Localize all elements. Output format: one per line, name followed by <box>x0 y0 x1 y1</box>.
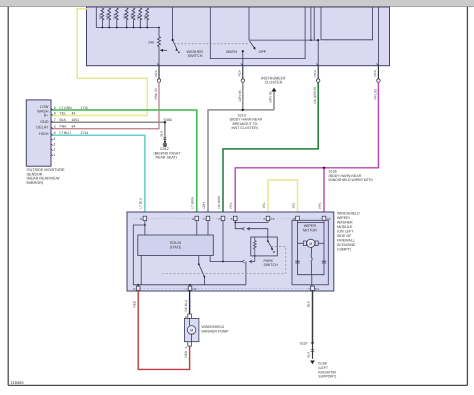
wire BLK 1051: sensor B+ to S366 <box>52 122 165 142</box>
svg-text:IN ENGINE: IN ENGINE <box>337 243 356 247</box>
wire color labels below connectors <box>154 86 377 103</box>
wiper motor circle <box>307 239 315 247</box>
svg-text:GRY 85: GRY 85 <box>238 90 242 101</box>
wire DK BLU: module to pump <box>189 291 191 315</box>
svg-text:=: = <box>186 287 188 291</box>
pin D box (LT BLU) <box>143 216 147 220</box>
svg-text:+: + <box>308 287 310 291</box>
ground G108 <box>310 361 315 365</box>
wire LT GRN 1715: sensor LOW to module pin G <box>52 110 197 216</box>
park switch resistor <box>253 237 256 256</box>
svg-text:FIREWALL: FIREWALL <box>337 238 355 242</box>
pin A box (YEL) <box>266 216 270 220</box>
wiper/washer module block <box>127 212 334 291</box>
wire RED: module to washer pump <box>138 291 189 370</box>
pin C8 box (PPL) <box>322 216 326 220</box>
wire PNK 93/94: washer switch to sensor GND <box>52 82 160 128</box>
contact double vertical a <box>310 8 312 41</box>
ppl stub <box>377 66 379 79</box>
svg-text:WINDSHIELD WIPER MTR): WINDSHIELD WIPER MTR) <box>329 178 373 182</box>
rail to red pin <box>137 285 139 286</box>
inline connector circle ppl <box>377 79 380 82</box>
wire yel pin B into motor loop left leg <box>297 221 299 223</box>
svg-text:DELAY: DELAY <box>36 125 49 129</box>
svg-text:S107: S107 <box>300 342 308 346</box>
svg-text:WASHER PUMP: WASHER PUMP <box>202 329 230 333</box>
connector stubs below washer switch <box>159 66 378 79</box>
inline connector circle pnk <box>157 79 160 82</box>
dk grn tap dot <box>317 39 319 41</box>
wire pin C to solid state <box>207 221 209 235</box>
svg-text:A: A <box>184 346 188 348</box>
wire pin B to pin A jumper <box>235 221 268 223</box>
wire GRY 85: washer switch to S210 <box>242 82 244 110</box>
svg-text:GND: GND <box>40 120 49 124</box>
svg-text:M: M <box>309 242 312 246</box>
svg-text:SWITCH: SWITCH <box>188 54 203 58</box>
module pin letters <box>140 217 331 221</box>
svg-text:BLK: BLK <box>60 118 67 122</box>
dk grn tap vertical <box>317 40 319 66</box>
module internal wires <box>133 221 272 287</box>
svg-text:8: 8 <box>54 111 56 115</box>
washer switch pivot dot <box>172 39 174 41</box>
connector C1 dashed line <box>133 217 330 219</box>
washer switch common vertical <box>172 8 174 41</box>
instrument cluster triangle <box>272 88 277 92</box>
svg-text:5: 5 <box>54 125 56 129</box>
washer relay contact dot <box>198 263 200 265</box>
wire pin D branch to washer feed rail <box>133 225 145 285</box>
sensor wire row labels <box>54 106 89 157</box>
NCA labels <box>154 70 377 76</box>
svg-text:BLK: BLK <box>307 300 311 307</box>
svg-text:COMPT): COMPT) <box>337 247 351 251</box>
svg-text:YEL: YEL <box>262 202 266 208</box>
svg-text:A: A <box>263 217 265 221</box>
svg-text:C2: C2 <box>193 287 197 291</box>
svg-text:30K: 30K <box>144 15 147 20</box>
washer relay output <box>203 277 205 285</box>
svg-text:LT GRN: LT GRN <box>60 106 73 110</box>
park switch box <box>251 237 277 256</box>
svg-text:HIGH: HIGH <box>39 132 49 136</box>
junction pin H to park switch line <box>222 261 224 263</box>
inline connector circle gry <box>241 79 244 82</box>
module top pin boxes <box>143 216 326 220</box>
switch gang dashed line <box>174 43 249 45</box>
svg-text:1: 1 <box>54 153 56 157</box>
pin B box (PPL) <box>233 216 237 220</box>
svg-text:NCA: NCA <box>373 70 377 76</box>
wire ppl pin C8 into motor loop right leg <box>323 221 325 223</box>
wire BLK below S107 <box>312 343 314 359</box>
park switch resistor bottom junction <box>254 255 256 257</box>
resistor R3 <box>115 8 118 28</box>
svg-text:NCA: NCA <box>154 70 158 76</box>
park switch blade arrowhead <box>271 247 274 250</box>
wire pin H to park switch line <box>222 221 224 262</box>
rail to pump pin <box>189 285 191 286</box>
wire solid state to park switch interface <box>210 256 243 262</box>
nested contact rect R2 <box>321 8 373 40</box>
svg-text:100K: 100K <box>130 13 133 19</box>
inline connector ticks below S366 <box>163 138 166 140</box>
svg-text:118465: 118465 <box>11 380 25 385</box>
potentiometer wiper arrow <box>163 49 168 51</box>
svg-text:GRY 85: GRY 85 <box>268 91 272 102</box>
motor winding squiggle <box>311 248 312 275</box>
resistor 24K <box>158 28 161 52</box>
svg-text:LT BLU: LT BLU <box>60 131 72 135</box>
svg-text:56K: 56K <box>137 15 140 20</box>
gry stub <box>242 66 244 79</box>
module bottom pin boxes <box>136 286 314 290</box>
junction washer rail to red pin <box>137 284 139 286</box>
svg-text:BLK: BLK <box>159 131 163 137</box>
svg-text:PPL: PPL <box>229 202 233 208</box>
svg-text:DK GRN: DK GRN <box>217 195 221 208</box>
svg-text:7: 7 <box>54 118 56 122</box>
solid state to rail <box>140 256 142 285</box>
svg-text:STATE: STATE <box>170 246 182 250</box>
wire 24K to block bottom <box>158 52 160 66</box>
svg-text:180K: 180K <box>124 13 127 19</box>
gry drop from wash contact <box>242 51 244 65</box>
wire left leg to left brush <box>298 242 304 244</box>
svg-text:2: 2 <box>54 148 56 152</box>
svg-text:GRY: GRY <box>202 201 206 209</box>
svg-text:24K: 24K <box>148 40 155 44</box>
svg-text:WIPER/: WIPER/ <box>337 216 350 220</box>
junction pin B tee <box>234 222 236 224</box>
svg-text:E3: E3 <box>315 287 319 291</box>
pnk stub <box>158 66 160 79</box>
ground G312 <box>163 143 167 147</box>
svg-text:6: 6 <box>54 131 56 135</box>
svg-text:MIRROR): MIRROR) <box>27 181 44 185</box>
wire PPL 83: washer switch to S105 and module pins <box>235 82 378 216</box>
washer switch block <box>87 7 390 66</box>
svg-text:LT GRN: LT GRN <box>191 196 195 208</box>
resistor R4 <box>125 8 128 28</box>
washer relay output dot <box>204 276 206 278</box>
sensor pin ticks <box>51 108 53 156</box>
svg-text:1715: 1715 <box>81 106 89 110</box>
wire pin G to solid state <box>196 221 198 235</box>
resistor R7 <box>146 8 149 28</box>
svg-text:3: 3 <box>54 142 56 146</box>
washer feed rail <box>138 284 246 286</box>
washer switch blade <box>173 40 177 49</box>
wire LT BLU 1714: sensor DELAY to module pin D <box>52 135 145 216</box>
pin D box (RED) <box>136 286 140 290</box>
off switch blade <box>250 41 255 49</box>
nested contact rect R0 <box>210 8 305 59</box>
svg-text:M: M <box>190 329 193 333</box>
svg-text:OFF: OFF <box>259 50 267 54</box>
resistor R6 <box>139 8 142 28</box>
wire YEL jumper module A to B <box>268 180 298 216</box>
resistor R1 <box>101 8 104 28</box>
resistor R5 <box>132 8 135 28</box>
wire YEL 43: sensor WASH to washer switch <box>52 9 148 116</box>
svg-text:YEL: YEL <box>60 111 67 115</box>
wiper arrowhead <box>160 49 163 52</box>
wire pin B to park switch feed <box>235 221 242 229</box>
exit ticks at washer switch bottom <box>157 64 378 66</box>
wire pin D to solid state <box>144 221 146 235</box>
svg-text:4: 4 <box>54 137 56 141</box>
page frame left border <box>7 7 9 386</box>
park switch blade contact dot <box>273 251 275 253</box>
pin H box (DK GRN) <box>221 216 225 220</box>
svg-text:RED: RED <box>132 300 136 307</box>
pin E3 box (BLK) <box>311 286 315 290</box>
dk grn stub <box>317 66 319 79</box>
inline connector circle dk grn <box>317 79 320 82</box>
motor brushes <box>303 241 306 246</box>
junction pin D tee <box>144 224 146 226</box>
washer pump <box>184 318 199 341</box>
washer relay blade <box>199 264 205 276</box>
junction motor loop to ground lead <box>311 274 313 276</box>
resistor ladder bus <box>96 27 159 29</box>
svg-text:WINDSHIELD: WINDSHIELD <box>337 211 360 215</box>
module label <box>337 211 360 251</box>
svg-text:330K: 330K <box>114 13 117 19</box>
svg-text:SWITCH: SWITCH <box>264 263 279 267</box>
resistor ladder bus junction dots <box>102 27 104 29</box>
bus left vertical <box>95 8 97 28</box>
resistor R2 <box>108 8 111 28</box>
connector arrows into park switch <box>242 227 252 263</box>
wire GRY 85 branch to instrument cluster <box>273 91 275 110</box>
svg-text:DK GRN 87: DK GRN 87 <box>313 86 317 103</box>
pin C2 box (DK BLU) <box>188 286 192 290</box>
svg-text:1714: 1714 <box>81 131 89 135</box>
svg-text:WIPER: WIPER <box>304 224 317 228</box>
wash contact dot <box>242 50 244 52</box>
svg-text:B+: B+ <box>44 114 50 118</box>
svg-text:SOLID: SOLID <box>170 241 182 245</box>
splice S105 <box>323 167 325 169</box>
off blade arrowhead <box>253 46 255 49</box>
connector C2 dashed line <box>133 287 316 289</box>
wire right leg to right brush <box>318 242 324 244</box>
svg-text:MOTOR: MOTOR <box>303 229 317 233</box>
splice S210 <box>242 109 244 111</box>
capacitor C-left plates <box>295 261 299 263</box>
capacitor C-right plates <box>322 261 326 263</box>
svg-text:H: H <box>218 217 220 221</box>
wire to park switch resistor bottom <box>250 261 255 263</box>
solid state box <box>138 235 214 256</box>
svg-text:PPL 83: PPL 83 <box>373 89 377 100</box>
park switch return vertical <box>245 262 247 285</box>
washer relay contact <box>198 256 200 265</box>
svg-text:9: 9 <box>54 106 56 110</box>
pin B box C1 (YEL) <box>296 216 300 220</box>
svg-text:NCA: NCA <box>313 70 317 76</box>
svg-text:B: B <box>231 217 233 221</box>
svg-text:C1: C1 <box>271 217 275 221</box>
junction washer rail to pump pin <box>189 284 191 286</box>
wire PPL branch S105 to module pin C8 <box>323 168 325 217</box>
splice S366 <box>164 121 166 123</box>
svg-text:(ON LEFT: (ON LEFT <box>337 229 354 233</box>
wire park switch feed to blade contact <box>247 229 268 242</box>
wire GRY 85 branch to module pin C <box>208 110 274 216</box>
washer pump motor circle <box>187 326 196 335</box>
ppl feed vertical in block <box>377 8 379 66</box>
junction dots in washer switch <box>102 27 320 53</box>
pin G box (LT GRN) <box>195 216 199 220</box>
contact double vertical b <box>313 8 315 41</box>
svg-text:BLK: BLK <box>307 352 311 358</box>
pin C box (GRY) <box>206 216 210 220</box>
svg-text:PPL: PPL <box>318 202 322 208</box>
washer pump pin boxes <box>188 314 192 318</box>
svg-text:S366: S366 <box>164 118 172 122</box>
scanner gray band <box>0 0 474 7</box>
svg-text:PNK 93: PNK 93 <box>154 88 158 99</box>
svg-text:MODULE: MODULE <box>337 225 353 229</box>
resistor value labels <box>99 13 147 19</box>
splice S107 <box>311 342 313 344</box>
svg-text:1051: 1051 <box>72 118 80 122</box>
svg-text:LT BLU: LT BLU <box>139 197 143 208</box>
svg-text:620K: 620K <box>106 13 109 19</box>
park switch blade pivot dot <box>267 240 269 242</box>
motor ground lead <box>311 275 313 286</box>
svg-text:SIDE OF: SIDE OF <box>337 234 352 238</box>
page frame bottom border <box>8 384 467 386</box>
outside moisture sensor connector <box>26 100 51 166</box>
svg-text:NCA: NCA <box>238 70 242 76</box>
svg-text:94: 94 <box>72 125 76 129</box>
svg-text:WASH: WASH <box>226 50 238 54</box>
svg-text:1.2M: 1.2M <box>99 14 102 20</box>
svg-text:CLUSTER: CLUSTER <box>265 81 283 85</box>
wiper motor box <box>292 220 328 284</box>
rotated wire labels above module <box>139 195 322 208</box>
wire BLK: wiper motor to ground <box>312 291 314 344</box>
svg-text:RED: RED <box>184 350 188 357</box>
wire DK GRN 87: washer switch to module pin H <box>223 82 318 216</box>
svg-text:43: 43 <box>72 111 76 115</box>
page frame right border <box>466 7 468 386</box>
svg-text:REAR SEAT): REAR SEAT) <box>156 156 177 160</box>
svg-text:WASHER: WASHER <box>337 220 353 224</box>
svg-text:DK BLU: DK BLU <box>184 299 188 311</box>
nested contact rect R1 <box>249 8 318 41</box>
svg-text:PNK: PNK <box>60 125 68 129</box>
svg-text:YEL: YEL <box>291 202 295 208</box>
park switch blade <box>268 241 273 249</box>
motor armature loop <box>298 222 325 274</box>
mechanical linkage dashed <box>162 247 286 274</box>
svg-text:INST CLUSTER): INST CLUSTER) <box>232 126 258 130</box>
svg-text:SUPPORT): SUPPORT) <box>318 375 336 379</box>
